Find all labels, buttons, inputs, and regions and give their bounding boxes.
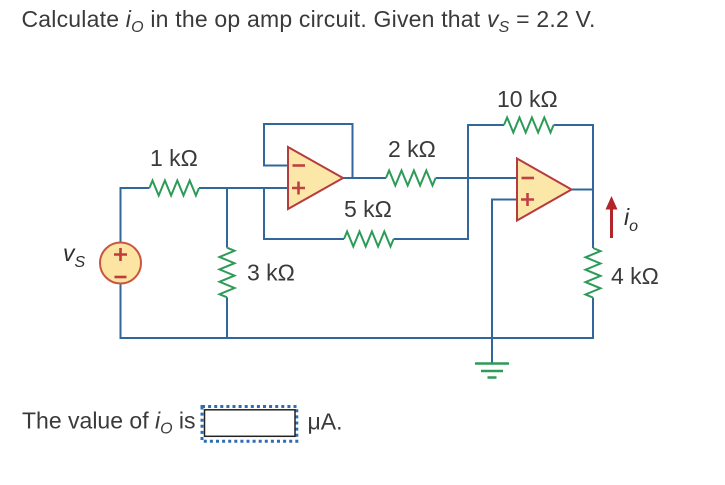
wire: main left horizontal to 1k resistor xyxy=(120,187,150,189)
resistor R6 4 kOhm (vertical) xyxy=(586,248,601,298)
wire: 5k branch vertical down from plus node xyxy=(263,188,265,240)
wire: mid vertical node (10k left / 2k right / 5k top) xyxy=(467,124,469,240)
wire: 4k bottom to bottom rail xyxy=(592,298,594,339)
resistor R2 2 kOhm xyxy=(386,171,436,186)
svg-text:10 kΩ: 10 kΩ xyxy=(497,86,558,112)
answer input box dotted focus outline xyxy=(202,407,297,442)
svg-text:2 kΩ: 2 kΩ xyxy=(388,136,436,162)
op-amp U1 xyxy=(288,147,343,209)
svg-text:4 kΩ: 4 kΩ xyxy=(611,263,659,289)
wire: op-amp U1 feedback loop xyxy=(264,124,353,179)
wire: 3k branch bottom xyxy=(226,297,228,339)
wire: 10k feedback left segment xyxy=(467,124,504,126)
resistor R1 1 kOhm xyxy=(149,181,199,196)
svg-text:μA.: μA. xyxy=(308,409,343,435)
op-amp U2 xyxy=(517,159,572,221)
wire: bottom rail xyxy=(120,337,595,339)
answer input box xyxy=(205,410,296,437)
ground xyxy=(475,364,509,378)
wire: op-amp U2 output xyxy=(571,189,593,191)
svg-text:5 kΩ: 5 kΩ xyxy=(344,196,392,222)
svg-text:Calculate iO in the op amp cir: Calculate iO in the op amp circuit. Give… xyxy=(22,6,596,36)
svg-text:1 kΩ: 1 kΩ xyxy=(150,145,198,171)
wire: left vertical from source top to main node xyxy=(120,188,122,243)
resistor R4 10 kOhm xyxy=(504,118,554,133)
current arrow io xyxy=(606,196,618,238)
resistor R5 3 kOhm (vertical) xyxy=(220,248,235,298)
wire: op-amp U2 plus input down to ground xyxy=(492,200,517,364)
svg-text:3 kΩ: 3 kΩ xyxy=(247,260,295,286)
wire: 5k left horizontal xyxy=(263,238,344,240)
resistor R3 5 kOhm xyxy=(344,232,394,247)
wire: right vertical from 10k down to 4k top xyxy=(592,124,594,248)
wire: 2k resistor to op-amp U2 minus input xyxy=(436,177,517,179)
wire: 3k branch top xyxy=(226,187,228,248)
wire: 5k right horizontal to mid vertical xyxy=(394,238,469,240)
wire: left vertical from source bottom to bottom rail xyxy=(120,284,122,340)
wire: 10k feedback right segment xyxy=(554,124,594,126)
voltage source VS xyxy=(100,243,141,284)
wire: 1k resistor to op-amp U1 plus input xyxy=(199,187,288,189)
wire: op-amp U1 output to 2k resistor xyxy=(343,177,386,179)
